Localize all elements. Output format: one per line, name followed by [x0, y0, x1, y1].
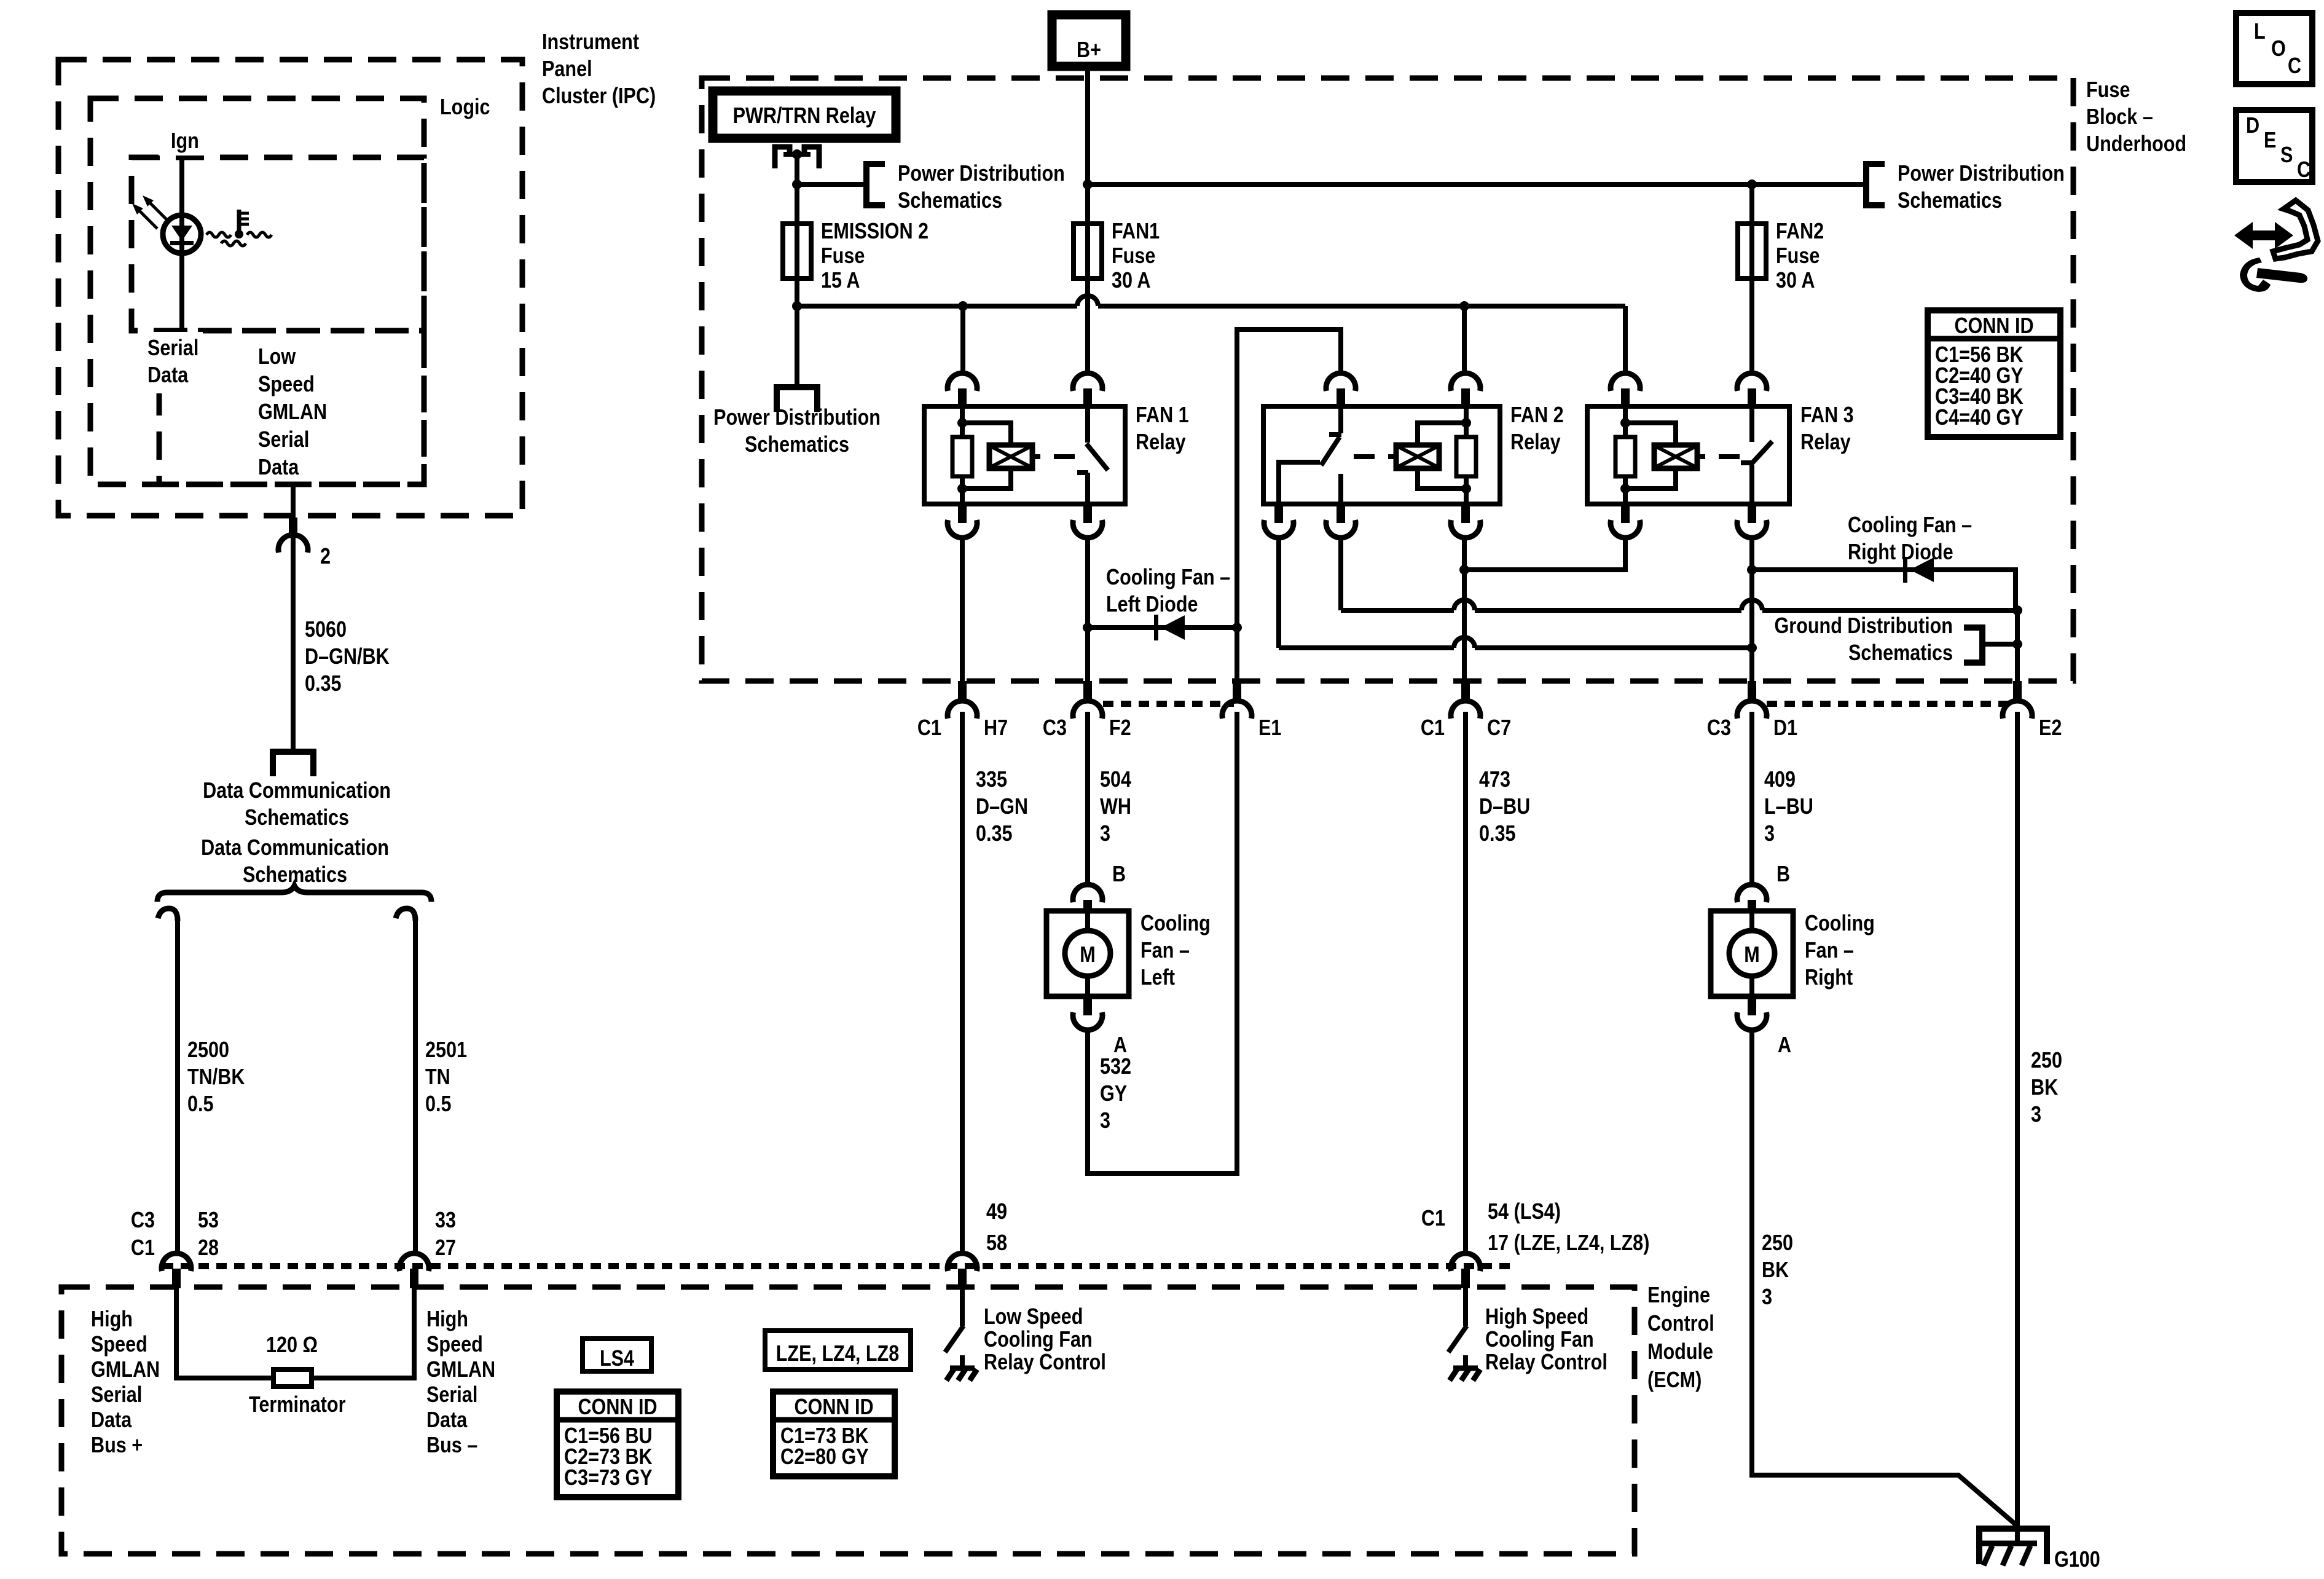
svg-text:15 A: 15 A [821, 269, 860, 293]
svg-text:Cluster (IPC): Cluster (IPC) [542, 84, 656, 109]
svg-text:Power Distribution: Power Distribution [713, 406, 881, 430]
svg-text:C3=73 GY: C3=73 GY [564, 1466, 653, 1490]
svg-text:(ECM): (ECM) [1647, 1368, 1702, 1393]
svg-text:30 A: 30 A [1112, 269, 1150, 293]
svg-text:Data Communication: Data Communication [201, 836, 389, 860]
svg-text:E1: E1 [1258, 716, 1281, 741]
svg-text:G100: G100 [2054, 1548, 2100, 1572]
svg-text:Cooling Fan: Cooling Fan [1485, 1328, 1594, 1352]
svg-text:High: High [91, 1307, 133, 1332]
svg-text:C1: C1 [1421, 1207, 1445, 1231]
svg-text:Speed: Speed [258, 372, 315, 397]
svg-text:CONN ID: CONN ID [1954, 314, 2033, 339]
svg-text:FAN2: FAN2 [1776, 219, 1824, 244]
svg-text:3: 3 [1762, 1285, 1772, 1310]
svg-text:Right: Right [1805, 966, 1853, 990]
svg-text:A: A [1778, 1033, 1791, 1058]
svg-text:FAN1: FAN1 [1112, 219, 1160, 244]
svg-text:High: High [426, 1307, 468, 1332]
svg-text:2: 2 [320, 545, 331, 569]
svg-text:Schematics: Schematics [745, 433, 849, 457]
svg-text:Schematics: Schematics [1898, 189, 2002, 213]
svg-text:Terminator: Terminator [249, 1393, 345, 1417]
svg-text:Fuse: Fuse [1776, 244, 1820, 269]
svg-text:Fan –: Fan – [1805, 939, 1854, 963]
svg-text:Cooling Fan –: Cooling Fan – [1106, 565, 1230, 590]
svg-text:473: 473 [1479, 768, 1510, 792]
svg-text:58: 58 [986, 1231, 1007, 1256]
svg-text:Panel: Panel [542, 57, 592, 82]
svg-text:Schematics: Schematics [1848, 641, 1953, 666]
svg-text:FAN 3: FAN 3 [1800, 403, 1854, 428]
svg-text:409: 409 [1764, 768, 1796, 792]
svg-text:C4=40 GY: C4=40 GY [1935, 406, 2024, 430]
svg-text:C3: C3 [131, 1208, 155, 1233]
svg-text:0.35: 0.35 [1479, 822, 1516, 846]
svg-text:335: 335 [976, 768, 1007, 792]
svg-text:B: B [1112, 862, 1126, 887]
svg-text:Low: Low [258, 345, 296, 369]
svg-text:0.5: 0.5 [425, 1092, 452, 1117]
svg-text:Control: Control [1647, 1312, 1714, 1336]
svg-text:E: E [2264, 128, 2276, 153]
svg-text:O: O [2271, 37, 2286, 61]
svg-text:C3: C3 [1707, 716, 1731, 741]
svg-text:Serial: Serial [91, 1383, 142, 1408]
svg-text:Data: Data [258, 455, 299, 480]
svg-text:Speed: Speed [426, 1333, 483, 1357]
svg-text:Engine: Engine [1647, 1283, 1710, 1308]
svg-text:Data: Data [147, 363, 189, 388]
svg-text:Cooling Fan –: Cooling Fan – [1848, 513, 1972, 538]
svg-text:Fuse: Fuse [821, 244, 865, 269]
svg-text:TN/BK: TN/BK [187, 1065, 245, 1090]
svg-text:Schematics: Schematics [245, 806, 349, 830]
svg-text:B+: B+ [1077, 38, 1101, 63]
svg-text:Relay: Relay [1800, 430, 1851, 455]
svg-text:A: A [1113, 1033, 1127, 1058]
svg-text:GMLAN: GMLAN [258, 400, 327, 425]
svg-text:Underhood: Underhood [2086, 132, 2186, 157]
svg-text:250: 250 [2031, 1049, 2062, 1073]
svg-text:28: 28 [198, 1236, 219, 1261]
svg-text:LS4: LS4 [600, 1347, 634, 1371]
svg-text:Fuse: Fuse [2086, 78, 2130, 103]
svg-text:D: D [2246, 114, 2259, 138]
svg-text:D–GN: D–GN [976, 795, 1028, 819]
svg-text:Serial: Serial [258, 428, 309, 452]
svg-text:33: 33 [435, 1208, 456, 1233]
svg-text:FAN 1: FAN 1 [1136, 403, 1189, 428]
svg-text:Bus +: Bus + [91, 1433, 143, 1458]
svg-text:Ground Distribution: Ground Distribution [1774, 614, 1953, 639]
svg-text:D–GN/BK: D–GN/BK [305, 645, 390, 669]
svg-text:Block –: Block – [2086, 105, 2153, 130]
svg-text:5060: 5060 [305, 618, 347, 642]
svg-text:Cooling: Cooling [1140, 912, 1211, 936]
svg-text:S: S [2280, 143, 2293, 168]
svg-text:Fuse: Fuse [1112, 244, 1155, 269]
svg-text:Data: Data [426, 1408, 468, 1433]
svg-text:Serial: Serial [426, 1383, 477, 1408]
svg-text:C: C [2288, 54, 2301, 79]
svg-text:C7: C7 [1487, 716, 1511, 741]
svg-text:250: 250 [1762, 1231, 1793, 1256]
svg-text:Power Distribution: Power Distribution [1898, 162, 2065, 186]
svg-text:D–BU: D–BU [1479, 795, 1530, 819]
svg-text:2501: 2501 [425, 1038, 467, 1063]
svg-text:0.35: 0.35 [305, 672, 342, 696]
svg-text:Module: Module [1647, 1340, 1713, 1364]
svg-text:532: 532 [1100, 1055, 1131, 1079]
svg-text:C2=80 GY: C2=80 GY [780, 1445, 869, 1470]
svg-text:504: 504 [1100, 768, 1131, 792]
svg-text:BK: BK [2031, 1076, 2058, 1100]
svg-text:C1: C1 [1421, 716, 1445, 741]
svg-text:3: 3 [1100, 1109, 1110, 1133]
svg-text:0.35: 0.35 [976, 822, 1013, 846]
svg-text:Bus –: Bus – [426, 1433, 477, 1458]
svg-text:CONN ID: CONN ID [578, 1395, 657, 1420]
svg-text:Instrument: Instrument [542, 30, 639, 55]
svg-text:LZE, LZ4, LZ8: LZE, LZ4, LZ8 [776, 1342, 899, 1366]
svg-text:BK: BK [1762, 1258, 1789, 1283]
svg-text:GY: GY [1100, 1082, 1127, 1106]
svg-text:F2: F2 [1109, 716, 1131, 741]
svg-text:Cooling: Cooling [1805, 912, 1875, 936]
svg-text:27: 27 [435, 1236, 456, 1261]
svg-text:M: M [1744, 943, 1759, 967]
svg-text:Data: Data [91, 1408, 132, 1433]
svg-text:H7: H7 [984, 716, 1008, 741]
svg-text:Right Diode: Right Diode [1848, 540, 1953, 565]
svg-text:C1: C1 [917, 716, 941, 741]
svg-text:Relay Control: Relay Control [1485, 1350, 1608, 1375]
svg-text:3: 3 [2031, 1103, 2041, 1127]
svg-text:L: L [2254, 20, 2266, 44]
svg-text:WH: WH [1100, 795, 1131, 819]
svg-text:Cooling Fan: Cooling Fan [984, 1328, 1093, 1352]
svg-text:Relay: Relay [1510, 430, 1561, 455]
svg-text:2500: 2500 [187, 1038, 229, 1063]
svg-text:Left Diode: Left Diode [1106, 593, 1198, 617]
svg-text:Speed: Speed [91, 1333, 147, 1357]
svg-text:Left: Left [1140, 966, 1175, 990]
svg-text:Relay Control: Relay Control [984, 1350, 1106, 1375]
svg-text:54 (LS4): 54 (LS4) [1488, 1200, 1561, 1224]
svg-text:Power Distribution: Power Distribution [898, 162, 1065, 186]
svg-text:C: C [2297, 158, 2310, 183]
svg-text:Fan –: Fan – [1140, 939, 1190, 963]
svg-text:D1: D1 [1773, 716, 1797, 741]
svg-text:120 Ω: 120 Ω [266, 1333, 318, 1358]
svg-text:Schematics: Schematics [898, 189, 1002, 213]
svg-text:EMISSION 2: EMISSION 2 [821, 219, 928, 244]
svg-text:High Speed: High Speed [1485, 1305, 1588, 1329]
svg-text:53: 53 [198, 1208, 219, 1233]
svg-text:PWR/TRN Relay: PWR/TRN Relay [733, 104, 876, 128]
svg-text:Logic: Logic [440, 95, 490, 120]
svg-text:3: 3 [1100, 822, 1110, 846]
svg-text:GMLAN: GMLAN [91, 1358, 160, 1382]
svg-text:CONN ID: CONN ID [794, 1395, 873, 1420]
svg-text:Serial: Serial [147, 336, 198, 361]
svg-text:Low Speed: Low Speed [984, 1305, 1083, 1329]
svg-text:30 A: 30 A [1776, 269, 1815, 293]
svg-text:Data Communication: Data Communication [203, 779, 391, 803]
svg-text:GMLAN: GMLAN [426, 1358, 495, 1382]
svg-text:C1: C1 [131, 1236, 155, 1261]
svg-text:0.5: 0.5 [187, 1092, 214, 1117]
svg-text:17 (LZE, LZ4, LZ8): 17 (LZE, LZ4, LZ8) [1488, 1231, 1649, 1256]
svg-text:Ign: Ign [171, 129, 199, 154]
svg-text:L–BU: L–BU [1764, 795, 1813, 819]
svg-text:M: M [1080, 943, 1095, 967]
svg-text:3: 3 [1764, 822, 1775, 846]
svg-text:Relay: Relay [1136, 430, 1186, 455]
svg-text:TN: TN [425, 1065, 450, 1090]
svg-text:FAN 2: FAN 2 [1510, 403, 1564, 428]
svg-text:B: B [1776, 862, 1790, 887]
svg-text:49: 49 [986, 1200, 1007, 1224]
svg-text:E2: E2 [2039, 716, 2062, 741]
svg-text:C3: C3 [1043, 716, 1067, 741]
